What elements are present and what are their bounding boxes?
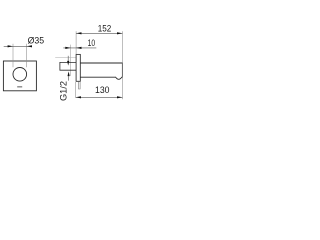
right view: faint top hairline of connector [55, 56, 76, 58]
left arrows [8, 45, 13, 47]
extension line for dims at x=76 [75, 31, 77, 54]
right view: G1/2 nipple [60, 62, 76, 70]
left view: Ø35 dimension line [4, 45, 29, 47]
svg-text:10: 10 [88, 38, 96, 49]
right view: wall plate [76, 54, 80, 81]
right view: spout body [80, 63, 122, 79]
svg-text:130: 130 [95, 85, 110, 96]
extension line at spout tip [121, 31, 123, 99]
extension line below plate for 130 [75, 82, 77, 98]
left view: tiny KEUCO logo [17, 86, 22, 87]
svg-text:Ø35: Ø35 [28, 36, 44, 47]
right view: small tab below plate [79, 81, 81, 89]
right view: faint wall line [70, 45, 72, 76]
130 dimension line [76, 96, 123, 98]
10 dimension [63, 47, 96, 49]
G1/2 dimension arrows [67, 56, 69, 61]
left view: extension lines for Ø35 [12, 44, 14, 67]
svg-text:G1/2: G1/2 [59, 81, 69, 101]
left view: circle (spout tube front) [13, 68, 27, 82]
152 dimension line [76, 32, 122, 34]
svg-text:152: 152 [98, 23, 112, 34]
left view: square escutcheon front [3, 61, 36, 91]
